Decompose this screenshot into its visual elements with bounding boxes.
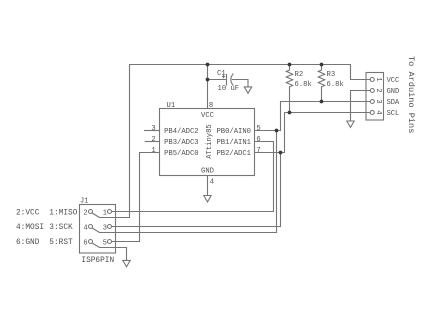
svg-text:3: 3: [151, 125, 155, 133]
svg-text:SDA: SDA: [387, 99, 400, 107]
svg-text:5: 5: [103, 239, 107, 247]
svg-text:VCC: VCC: [387, 77, 400, 85]
svg-text:ATtiny85: ATtiny85: [206, 124, 214, 159]
svg-text:U1: U1: [167, 102, 176, 110]
svg-text:GND: GND: [387, 88, 400, 96]
svg-text:R2: R2: [295, 71, 304, 79]
svg-text:6:GND: 6:GND: [16, 239, 40, 247]
svg-text:PB2/ADC1: PB2/ADC1: [216, 150, 251, 158]
svg-text:5: 5: [256, 125, 260, 133]
svg-text:PB3/ADC3: PB3/ADC3: [164, 139, 199, 147]
svg-text:PB5/ADC0: PB5/ADC0: [164, 150, 199, 158]
svg-text:PB0/AIN0: PB0/AIN0: [216, 128, 251, 136]
svg-text:6.8k: 6.8k: [327, 81, 344, 89]
svg-text:2: 2: [374, 88, 382, 92]
svg-text:R3: R3: [327, 71, 336, 79]
svg-text:VCC: VCC: [201, 112, 215, 120]
svg-text:10 uF: 10 uF: [218, 85, 240, 93]
svg-text:1: 1: [151, 147, 155, 155]
svg-text:1:MISO: 1:MISO: [49, 209, 77, 217]
svg-text:6.8k: 6.8k: [295, 81, 312, 89]
svg-text:1: 1: [374, 77, 382, 81]
svg-text:5:RST: 5:RST: [49, 239, 73, 247]
svg-text:GND: GND: [201, 167, 214, 175]
svg-text:4:MOSI: 4:MOSI: [16, 224, 44, 232]
svg-text:ISP6PIN: ISP6PIN: [81, 257, 114, 265]
svg-text:SCL: SCL: [387, 110, 400, 118]
svg-text:To Arduino Pins: To Arduino Pins: [406, 56, 416, 133]
svg-text:4: 4: [210, 179, 214, 187]
svg-text:7: 7: [256, 147, 260, 155]
svg-text:8: 8: [209, 102, 213, 110]
svg-text:4: 4: [83, 224, 87, 232]
svg-text:2: 2: [83, 209, 87, 217]
svg-text:PB4/ADC2: PB4/ADC2: [164, 128, 199, 136]
svg-text:PB1/AIN1: PB1/AIN1: [216, 139, 251, 147]
svg-text:6: 6: [256, 136, 260, 144]
svg-text:1: 1: [103, 209, 107, 217]
svg-text:C1: C1: [217, 70, 226, 78]
svg-text:3: 3: [374, 99, 382, 103]
svg-text:4: 4: [374, 110, 382, 114]
svg-text:2:VCC: 2:VCC: [16, 209, 40, 217]
svg-text:3:SCK: 3:SCK: [49, 224, 73, 232]
svg-text:3: 3: [103, 224, 107, 232]
svg-text:J1: J1: [80, 198, 88, 206]
svg-text:2: 2: [151, 136, 155, 144]
svg-text:6: 6: [83, 239, 87, 247]
